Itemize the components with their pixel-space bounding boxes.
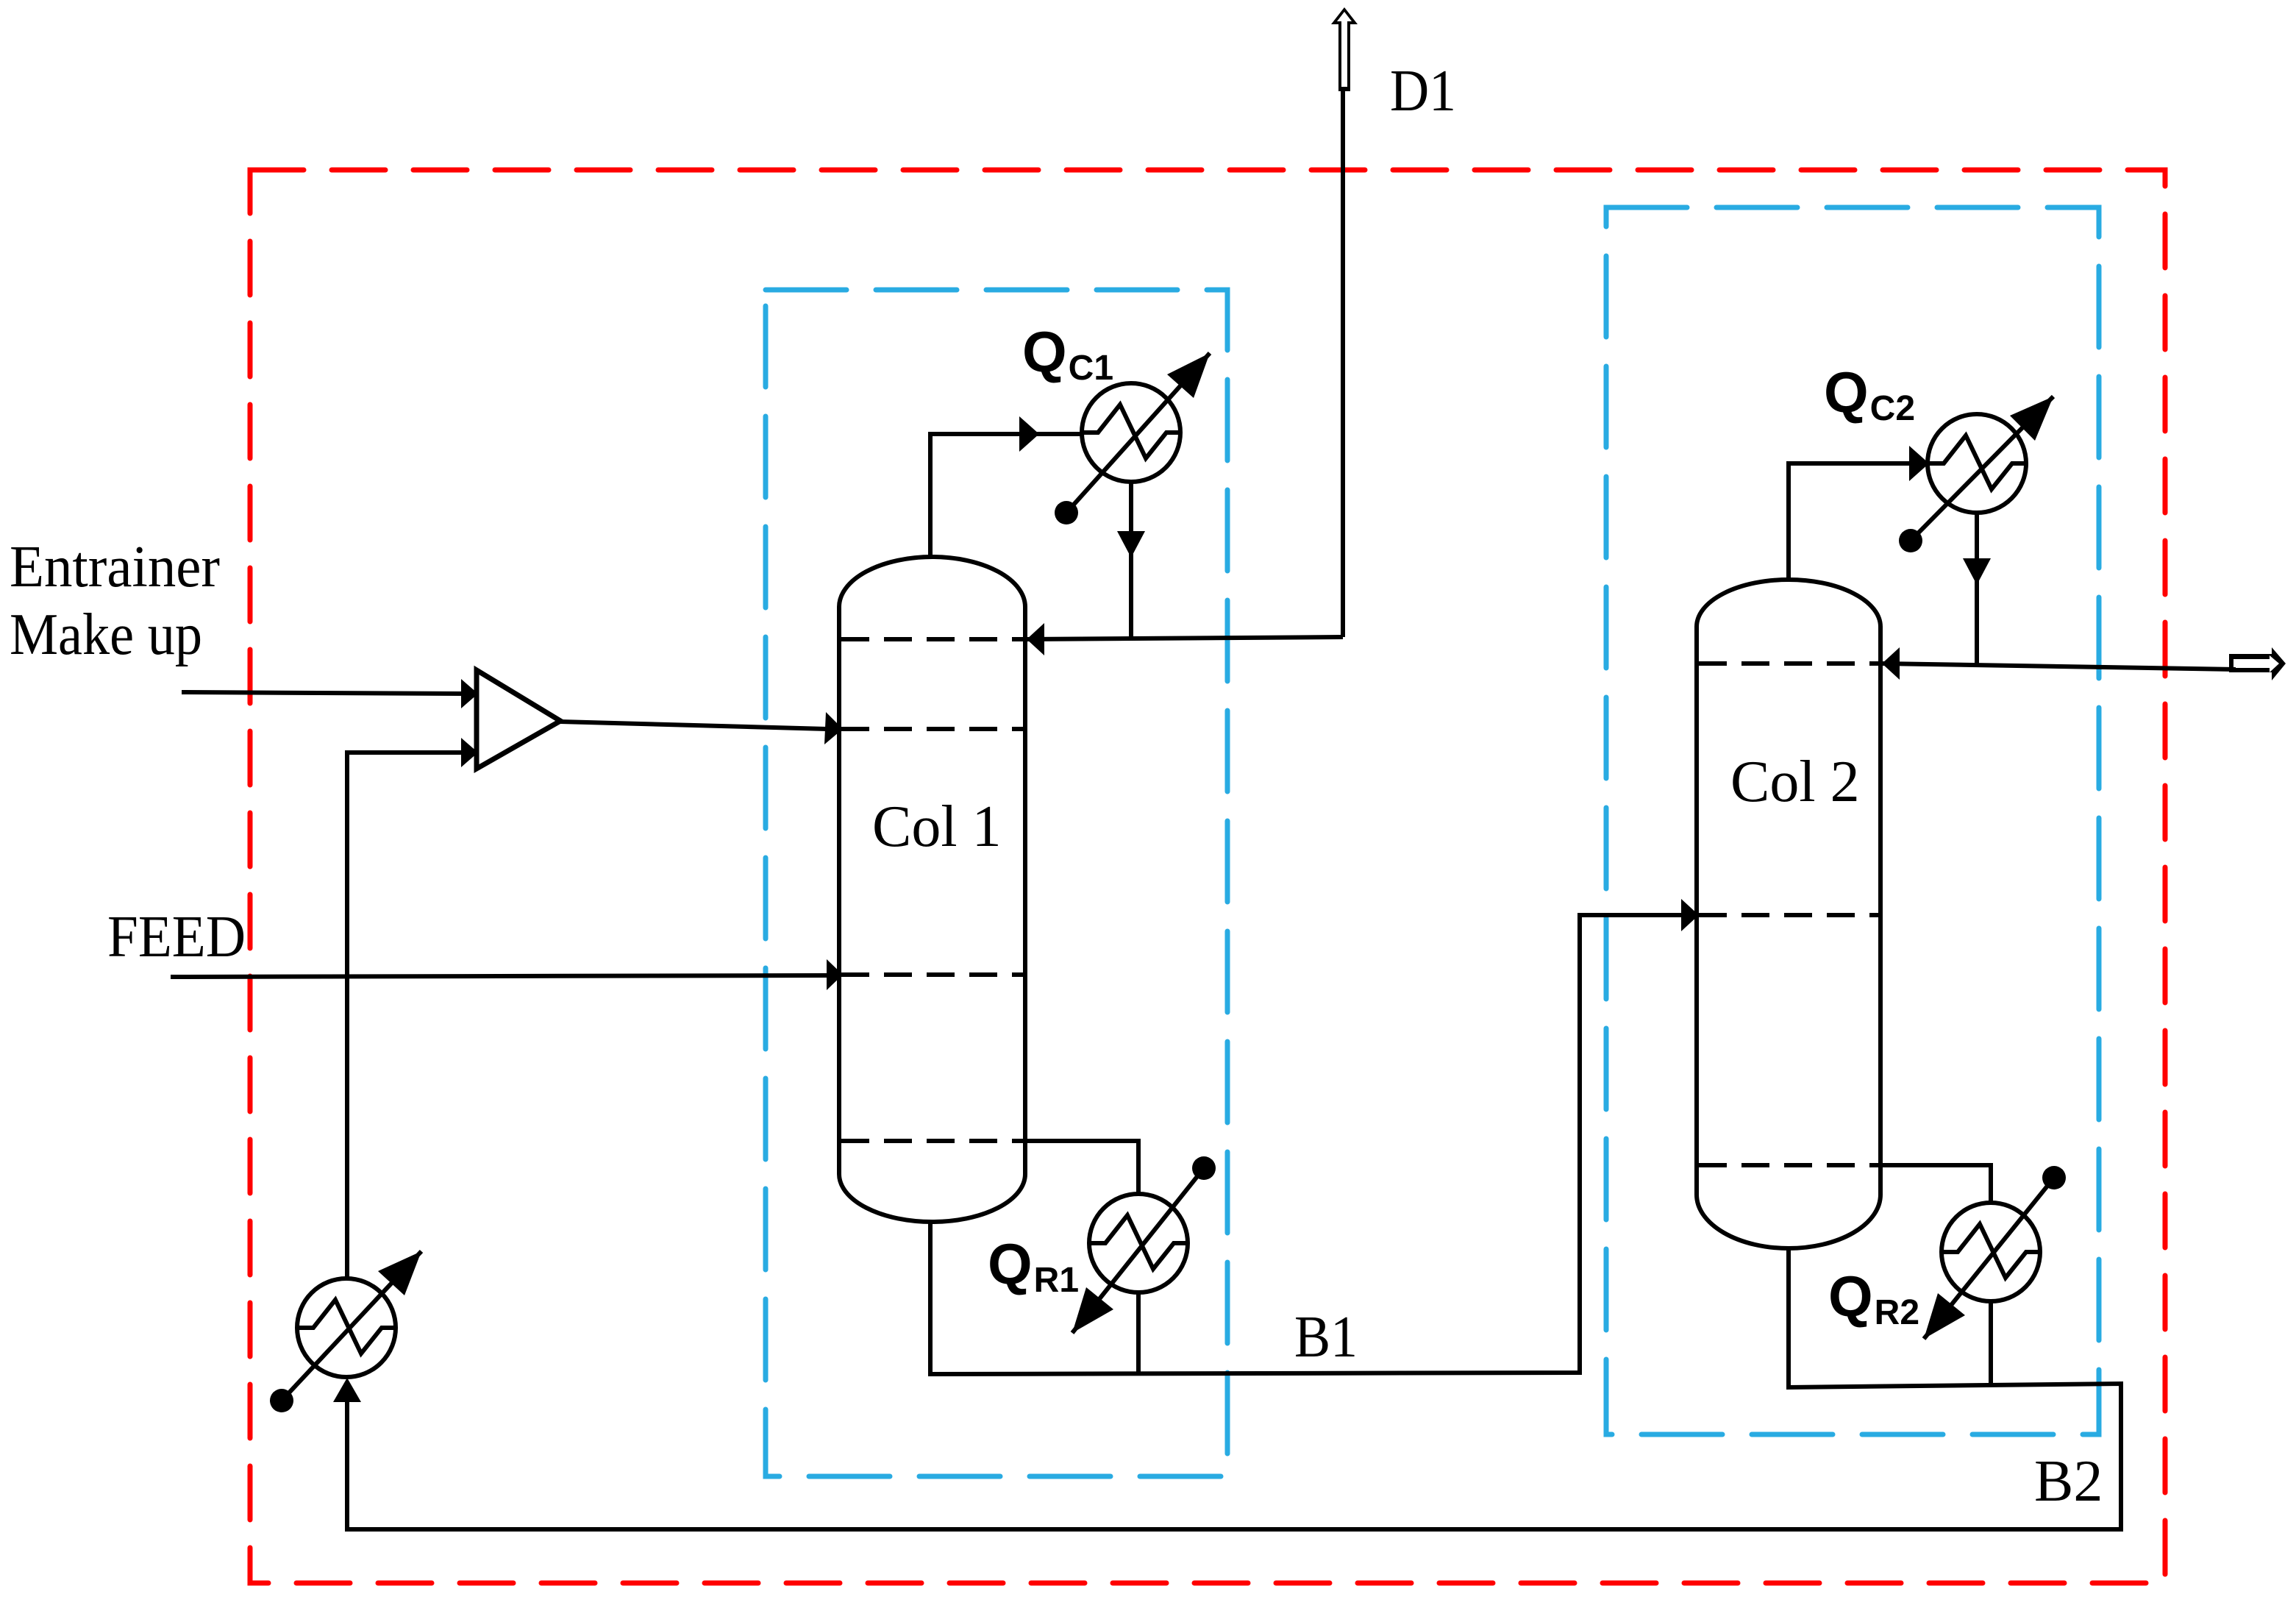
D1 product hollow arrow [1331,7,1358,91]
svg-text:B2: B2 [2034,1449,2103,1514]
blue dashed boundary box around Col 2 [1606,207,2099,1434]
svg-text:FEED: FEED [107,905,246,970]
svg-text:QC2: QC2 [1824,360,1915,428]
wire: D1 riser [1341,88,1345,637]
cooler utility arrow [282,1251,421,1401]
Col 1 feed tray (dashed) [841,972,1023,977]
wire: reflux/product header into Col 2 top tray [1883,664,2236,669]
Col 1 bottom tray (dashed) [841,1139,1023,1143]
recycle cooler (heat exchanger, bottom left) [297,1278,396,1377]
QC1 utility arrow [1066,353,1210,513]
svg-text:D1: D1 [1390,59,1456,124]
svg-text:Col 1: Col 1 [872,794,1002,859]
blue dashed boundary box around Col 1 [766,290,1227,1476]
condenser QC1 (heat exchanger) [1082,383,1180,482]
wire: Col 1 overhead vapor line to condenser [930,434,1083,559]
reboiler QR1 (heat exchanger) [1089,1194,1188,1292]
svg-text:Col 2: Col 2 [1730,750,1860,814]
mixer M1 (triangle) [477,670,560,769]
product hollow arrow (top right outlet) [2229,647,2286,680]
wire: Col 2 bottoms B2 recycle line back to cooler [347,1246,2121,1529]
Col 1 top tray (dashed) [841,637,1023,641]
wire: Col 2 reboiler loop [1880,1165,1991,1387]
Col 2 feed tray (dashed) [1699,913,1878,917]
svg-text:Make up: Make up [10,602,202,667]
wire: FEED line into Col 1 feed tray [171,975,827,977]
Col 2 bottom tray (dashed) [1699,1163,1878,1167]
QC2 utility arrow [1911,396,2053,541]
wire: Col 2 overhead vapor line to condenser [1789,463,1930,581]
wire: condenser C1 outlet down to reflux line [1129,478,1133,638]
wire: Entrainer make-up feed line into mixer [182,692,465,694]
column Col 1 (vessel) [839,557,1025,1222]
condenser QC2 (heat exchanger) [1928,414,2026,513]
svg-text:QR2: QR2 [1828,1264,1919,1332]
wire: condenser C2 outlet down to product line [1975,508,1979,666]
QR1 utility arrow [1072,1168,1204,1333]
svg-text:QR1: QR1 [988,1231,1079,1300]
wire: Col 1 reboiler loop [1025,1141,1138,1374]
reboiler QR2 (heat exchanger) [1942,1203,2040,1301]
column Col 2 (vessel) [1697,580,1880,1248]
red dashed system boundary box [250,170,2165,1583]
wire: mixer outlet to Col 1 entrainer tray [560,722,827,729]
Col 1 entrainer tray (dashed) [841,727,1023,731]
Col 2 top tray (dashed) [1699,661,1878,666]
wire: reflux/distillate header into Col 1 top tray [1027,637,1343,639]
svg-text:QC1: QC1 [1022,319,1113,388]
QR2 utility arrow [1924,1178,2054,1339]
svg-text:B1: B1 [1294,1305,1358,1370]
wire: recycle riser from cooler up to mixer inlet [347,753,465,1377]
svg-text:Entrainer: Entrainer [10,535,220,600]
wire: Col 1 bottoms B1 line to Col 2 feed tray [930,915,1683,1374]
